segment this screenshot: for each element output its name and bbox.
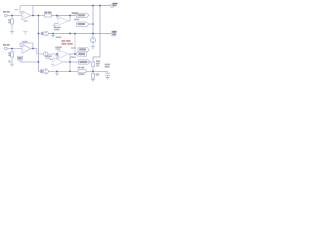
wire resistor R1 top lead [11, 16, 13, 20]
source V5 at x93 [90, 37, 95, 42]
ground below source V5 [91, 47, 95, 50]
op-amp U3 [22, 44, 31, 53]
label flag3 text [79, 48, 86, 50]
node dot row D gnd [56, 53, 58, 55]
label U4 name [55, 47, 62, 49]
label in2 [3, 44, 6, 46]
source V4 row E [43, 69, 48, 74]
flag3 net label at y48 [78, 48, 89, 52]
label near U4 output [71, 47, 76, 49]
label U1 power [24, 20, 28, 22]
resistor R1 [11, 19, 14, 24]
label port row C [112, 31, 116, 33]
source V3 row D [43, 52, 48, 57]
wire flag2 to vertical bus x93 [89, 23, 93, 25]
label R7 [78, 67, 81, 69]
wire U2 output stub [68, 20, 70, 22]
wire resistor R6 bottom lead [92, 78, 94, 79]
label above op-amp U3 [22, 41, 28, 43]
ground row E junction [55, 73, 59, 76]
wire row E left segment [42, 70, 44, 72]
ground below R1 [10, 32, 14, 35]
wire bus A-line vertical [37, 16, 39, 72]
ground row C junction [51, 35, 55, 38]
flag4 net label box [17, 56, 22, 60]
wire feedback loop A top [20, 5, 33, 7]
wire U2 plus input stub left [55, 23, 59, 25]
wire U2 minus input stub down [56, 16, 58, 19]
node dot row E x70 [69, 70, 71, 72]
flag1 net label at row y15 [77, 13, 90, 17]
wire feedback loop B vertical up [32, 43, 34, 49]
wire U2 plus gnd stub [54, 24, 56, 26]
text smudges (labels) [3, 3, 118, 76]
node dot top rail x93 [92, 5, 94, 7]
op-amp U2 [58, 16, 68, 25]
junction dots [11, 5, 101, 73]
wire row D from B elbow to source [37, 53, 43, 55]
resistor R3 [45, 14, 52, 17]
label U5 name [45, 55, 52, 57]
node dot row C x93 [92, 33, 94, 35]
wire resistor R1 bottom lead [11, 24, 13, 32]
label R1 [8, 19, 10, 21]
label R2 [8, 52, 10, 54]
label flag5 text [78, 53, 85, 55]
port circle IN1 [5, 14, 8, 17]
node dot row E x93 [92, 70, 94, 72]
node dot row E out x70 [69, 61, 71, 63]
ground below R6 [91, 79, 95, 82]
wire row D output [69, 53, 76, 55]
wire row C from bus to source [38, 33, 43, 35]
label port top right [112, 3, 117, 5]
op-amp U4 [58, 49, 68, 58]
wire vertical rail x93 [92, 6, 94, 38]
label R5 [96, 60, 100, 62]
port right row C [112, 31, 117, 36]
flag5 net label row D output [76, 52, 87, 56]
wire input row B [7, 48, 22, 50]
capacitor CL plates [105, 73, 110, 75]
wire resistor R5 bottom lead [92, 67, 94, 74]
label R7 value below [78, 73, 84, 75]
wire stub to op-amp U3 minus input [20, 46, 22, 48]
node dot input B [11, 48, 13, 50]
flag2 net label at y24 [77, 22, 90, 26]
node dot bus A top [38, 15, 40, 17]
wire input row A [7, 15, 22, 17]
label in1 [3, 11, 6, 13]
spice directive red text [61, 40, 72, 45]
wire U1 output row [31, 15, 45, 17]
wire row E source to resistor R7 [48, 70, 78, 72]
label flag6 text [80, 61, 87, 63]
label V2 [41, 32, 43, 34]
label CL [105, 64, 111, 66]
wire feedback loop B top [20, 42, 33, 44]
wire A-line corner into row E [38, 70, 43, 72]
label flag4 text [18, 57, 22, 59]
op-amp U1 [22, 11, 31, 20]
ground U2 plus input [52, 25, 56, 28]
wire source V5 bottom stub [92, 43, 94, 47]
wire bus B-line vertical [36, 49, 38, 55]
label R6 [96, 73, 100, 76]
source V2 row C [44, 31, 49, 36]
wire feedback loop A vertical up [32, 6, 34, 16]
node dot bus A y62 [38, 61, 40, 63]
wire row C source to port [48, 33, 111, 35]
port right top [111, 5, 114, 8]
node dot R3/U2 junction [56, 15, 58, 17]
node dot row C x75 [74, 33, 76, 35]
wire flag4 stem [19, 60, 21, 62]
node dot top rail x100 [99, 5, 101, 7]
resistor R6 [92, 74, 95, 79]
ground row D junction [55, 56, 59, 59]
node dot row C gnd [52, 33, 54, 35]
wire load corner down [107, 71, 109, 73]
wire x75 vertical link [74, 34, 76, 55]
label V4 [40, 69, 42, 71]
node dot row D x75 [74, 53, 76, 55]
wire op-amp E input stubs [50, 59, 53, 61]
wire stub to op-amp U1 minus input [20, 12, 22, 14]
label near feedback V1 [15, 9, 19, 10]
label R2 value [8, 60, 10, 62]
node dot input A [11, 15, 13, 17]
resistor R2 [11, 52, 14, 57]
wire cap bottom stub [107, 75, 109, 77]
resistor R5 [92, 62, 95, 67]
wire op-amp E output row y62 [64, 61, 92, 63]
wire gnd stub row E junction [56, 71, 58, 73]
op-amp U5 [53, 57, 63, 66]
ground below op-amp U1 power [23, 32, 27, 35]
wire gnd stub row D junction [56, 54, 58, 56]
flag6 net label row E output [78, 60, 90, 64]
node dot U1 out/feedback [32, 15, 34, 17]
wire vertical rail x100 with elbow to R5 [93, 6, 100, 63]
ground below R2 [10, 64, 14, 67]
label under row C [56, 37, 62, 39]
label under flag1 [74, 19, 79, 21]
wire op-amp E input bend up [49, 58, 51, 60]
ground below CL [105, 77, 109, 80]
label flag2 text [78, 23, 86, 25]
resistor R7 [78, 70, 86, 73]
node dot row E gnd [56, 70, 58, 72]
wire row E resistor R7 to load [86, 70, 108, 72]
node dot U2 out on rail [69, 15, 71, 17]
wire U3 output [31, 48, 37, 50]
label between flag5 and flag6 [71, 56, 76, 58]
wire resistor R2 bottom lead [11, 57, 13, 64]
label U2 name [54, 27, 61, 29]
wire y62 to flag4 [20, 61, 38, 63]
wire from resistor R3 to flag1 [52, 15, 77, 17]
wire feedback loop B down [19, 43, 21, 47]
wire top rail from U1 feedback to right port [33, 5, 111, 7]
label above flag1 [72, 12, 78, 14]
label R3 [44, 12, 47, 14]
label flag1 text [78, 14, 86, 16]
wire row D source to op-amp [48, 53, 58, 55]
wire U2 output up to rail [69, 16, 71, 22]
wire gnd stub row C junction [52, 34, 54, 36]
node dot U3 out/feedback [32, 48, 34, 50]
wire op-amp E lower input stub [51, 63, 53, 65]
wire resistor R2 top lead [11, 49, 13, 53]
wire x70 vertical link [69, 54, 71, 71]
node dot row C x70 [69, 33, 71, 35]
node dot bus A row C [38, 33, 40, 35]
node dot x93 y24 [92, 23, 94, 25]
wire feedback loop A down to inverting input [19, 6, 21, 14]
port circle IN2 [5, 47, 8, 50]
